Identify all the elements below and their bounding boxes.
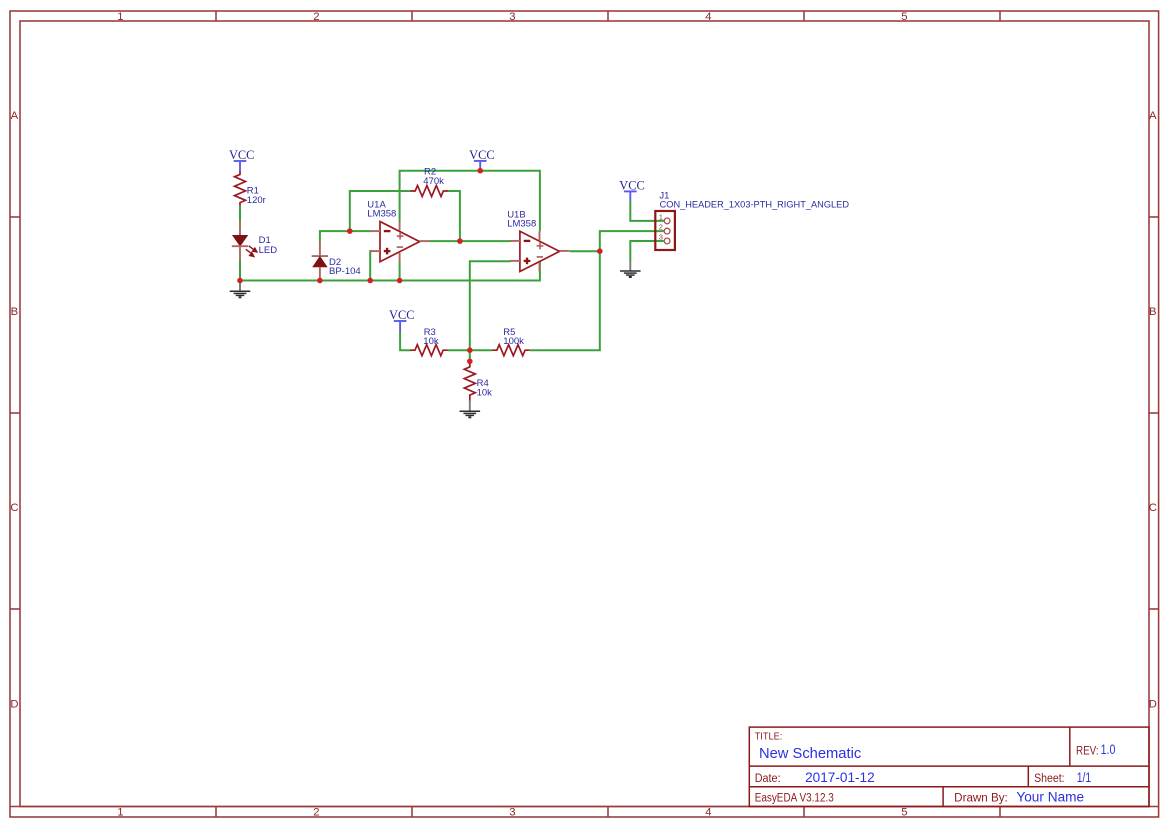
svg-text:2: 2 <box>659 223 663 232</box>
svg-text:Your Name: Your Name <box>1016 790 1084 805</box>
svg-text:C: C <box>10 502 18 514</box>
node U1B output <box>597 248 603 254</box>
wire node B down to R5 right <box>530 251 600 350</box>
wire net VCC R1 top <box>240 171 664 362</box>
svg-text:1: 1 <box>117 11 123 23</box>
svg-text:D: D <box>10 699 18 711</box>
svg-text:TITLE:: TITLE: <box>755 732 783 743</box>
node R4 top <box>467 359 473 365</box>
wire J1 pin 3 to ground <box>630 241 663 261</box>
node C R3 R5 <box>467 347 473 353</box>
svg-text:LM358: LM358 <box>367 209 396 220</box>
wire node A to U1A -in <box>350 230 372 232</box>
wire U1A out to U1B -in <box>429 240 511 242</box>
svg-text:A: A <box>11 110 19 122</box>
svg-text:LED: LED <box>259 245 278 256</box>
svg-text:Drawn By:: Drawn By: <box>954 793 1008 805</box>
wire node B up to J1 pin 2 <box>600 231 664 251</box>
ground under D1 <box>230 281 251 298</box>
title block <box>749 727 1149 806</box>
wire U1A +in to rail <box>370 251 372 280</box>
wire D1 to ground rail <box>239 260 241 280</box>
svg-text:5: 5 <box>901 806 907 818</box>
VCC flag 2 <box>474 161 487 171</box>
svg-text:D: D <box>1149 699 1157 711</box>
svg-text:1: 1 <box>659 212 663 221</box>
svg-text:LM358: LM358 <box>507 219 536 230</box>
svg-text:BP-104: BP-104 <box>329 266 361 277</box>
resistor R1 <box>235 171 246 205</box>
svg-text:10k: 10k <box>423 336 439 347</box>
svg-text:A: A <box>1149 110 1157 122</box>
svg-text:1/1: 1/1 <box>1077 770 1092 785</box>
svg-text:2: 2 <box>313 806 319 818</box>
wire VCC3 to R3 left <box>400 331 411 350</box>
wire D2 top to node A <box>320 231 350 242</box>
node A feedback <box>347 228 353 234</box>
resistor R5 <box>492 345 529 356</box>
VCC flag 3 <box>394 321 407 331</box>
wire VCC4 to J1 pin 1 <box>630 201 663 221</box>
LED D1 <box>232 221 257 260</box>
wire VCC top rail <box>400 171 540 232</box>
wire R2 right down to U1A out <box>448 191 460 241</box>
resistor R2 <box>411 186 448 197</box>
svg-text:EasyEDA V3.12.3: EasyEDA V3.12.3 <box>755 793 834 805</box>
svg-text:3: 3 <box>509 806 515 818</box>
wire ground rail <box>240 261 540 281</box>
svg-text:B: B <box>1149 306 1157 318</box>
VCC flag 1 <box>234 161 247 172</box>
wire node C up to U1B +in <box>470 261 511 361</box>
svg-text:470k: 470k <box>423 176 444 187</box>
svg-text:5: 5 <box>901 11 907 23</box>
svg-text:New Schematic: New Schematic <box>759 746 861 762</box>
wire U1B out to node B <box>570 250 600 252</box>
photodiode D2 <box>312 242 328 280</box>
node VCC tap on top rail <box>477 168 483 174</box>
svg-text:C: C <box>1149 502 1157 514</box>
junction dots <box>237 168 602 364</box>
svg-text:3: 3 <box>659 232 663 241</box>
op-amp U1A <box>370 222 429 262</box>
resistor R4 <box>464 361 475 400</box>
wire node A up to R2 left <box>350 191 412 231</box>
svg-text:CON_HEADER_1X03-PTH_RIGHT_ANGL: CON_HEADER_1X03-PTH_RIGHT_ANGLED <box>660 200 850 211</box>
title block texts <box>755 732 1116 805</box>
svg-text:10k: 10k <box>477 388 493 399</box>
svg-text:120r: 120r <box>247 195 266 206</box>
svg-text:VCC: VCC <box>229 148 254 162</box>
wire D2 bottom to rail <box>319 278 321 281</box>
wire R3 right to R5 left through node C <box>448 349 493 351</box>
node D1 rail <box>237 278 243 284</box>
resistor R3 <box>410 345 447 356</box>
svg-text:VCC: VCC <box>469 148 494 162</box>
svg-text:3: 3 <box>509 11 515 23</box>
svg-text:1.0: 1.0 <box>1101 742 1116 757</box>
ground under J1 pin 3 <box>620 261 641 277</box>
node D2 rail <box>317 278 323 284</box>
svg-text:Sheet:: Sheet: <box>1034 773 1065 785</box>
svg-text:2017-01-12: 2017-01-12 <box>805 770 875 785</box>
wire R1 to D1 <box>239 206 241 221</box>
frame column labels top <box>117 11 907 23</box>
ground under R4 <box>460 401 481 418</box>
svg-text:VCC: VCC <box>619 179 644 193</box>
op-amp U1B <box>510 231 569 271</box>
svg-text:2: 2 <box>313 11 319 23</box>
svg-text:4: 4 <box>705 806 711 818</box>
node U1A +in rail <box>367 278 373 284</box>
VCC flag 4 <box>624 191 637 200</box>
svg-text:REV:: REV: <box>1076 745 1099 757</box>
frame row labels left <box>10 110 18 710</box>
svg-text:4: 4 <box>705 11 711 23</box>
svg-text:VCC: VCC <box>389 308 414 322</box>
frame column labels bottom <box>117 806 907 818</box>
svg-text:B: B <box>11 306 19 318</box>
node U1A V- rail <box>397 278 403 284</box>
svg-text:Date:: Date: <box>755 773 781 785</box>
frame row labels right <box>1149 110 1157 710</box>
wire U1A V- to rail <box>399 262 401 281</box>
node U1A output <box>457 238 463 244</box>
svg-text:1: 1 <box>117 806 123 818</box>
connector J1 <box>655 211 675 250</box>
svg-text:100k: 100k <box>503 336 524 347</box>
